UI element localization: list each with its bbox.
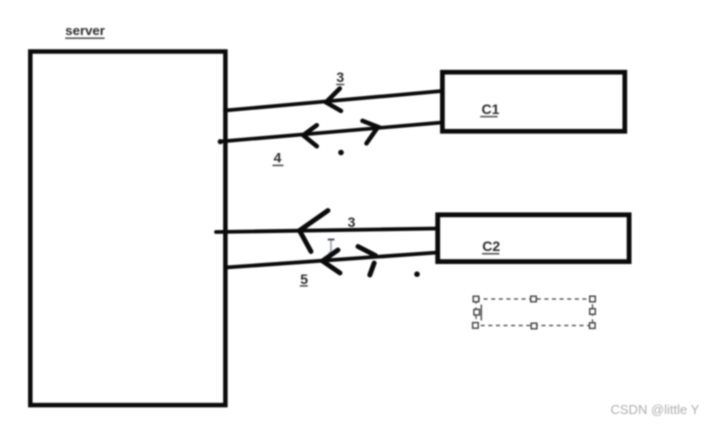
server label: [65, 23, 105, 38]
arrowhead left on lower C2 line: [323, 250, 341, 273]
arrowhead right lower stroke on lower C2 line: [370, 263, 374, 275]
arrowhead left on lower C1 line: [303, 125, 317, 146]
svg-text:3: 3: [348, 214, 356, 230]
dot on lower C2 line: [414, 271, 420, 277]
svg-text:server: server: [65, 23, 105, 38]
arrowhead right on lower C1 line: [363, 121, 379, 144]
selection handle top-middle: [531, 296, 537, 302]
label 3 (upper C1 line): [336, 69, 344, 85]
wire: server to C2 upper line: [216, 229, 438, 233]
selection marquee dashed rect: [476, 299, 593, 326]
wire: server to C1 lower line: [218, 123, 442, 145]
svg-text:C2: C2: [482, 238, 500, 254]
C2 label: [482, 238, 500, 254]
label 4: [273, 149, 284, 165]
text cursor I-beam: [328, 240, 335, 253]
dot on lower C1 line: [338, 150, 344, 156]
big arrowhead left on upper C2 line: [300, 211, 329, 252]
watermark CSDN: [611, 402, 700, 417]
arrowhead left on upper C1 line: [326, 89, 341, 111]
wire: server to C1 upper line: [225, 91, 442, 111]
svg-text:4: 4: [274, 149, 282, 165]
arrowhead right upper stroke on lower C2 line: [358, 247, 376, 256]
C1 label: [480, 101, 499, 117]
label 3 (upper C2 line): [348, 214, 356, 230]
selection handle top-left: [473, 296, 479, 302]
selection handle bottom-left: [473, 323, 479, 329]
svg-text:5: 5: [300, 271, 308, 287]
selection handle top-right: [590, 296, 596, 302]
selection handle bottom-right: [590, 323, 596, 329]
client box C2: [438, 215, 629, 262]
server box: [30, 52, 225, 406]
selection handle bottom-middle: [531, 323, 537, 329]
svg-text:3: 3: [336, 69, 344, 85]
svg-text:C1: C1: [482, 101, 500, 117]
selection handle mid-right: [590, 309, 596, 315]
selection text cursor bar: [480, 305, 482, 321]
selection handle mid-left: [474, 309, 480, 315]
wire: server to C2 lower line: [226, 253, 439, 268]
client box C1: [442, 72, 624, 131]
label 5: [300, 271, 309, 287]
